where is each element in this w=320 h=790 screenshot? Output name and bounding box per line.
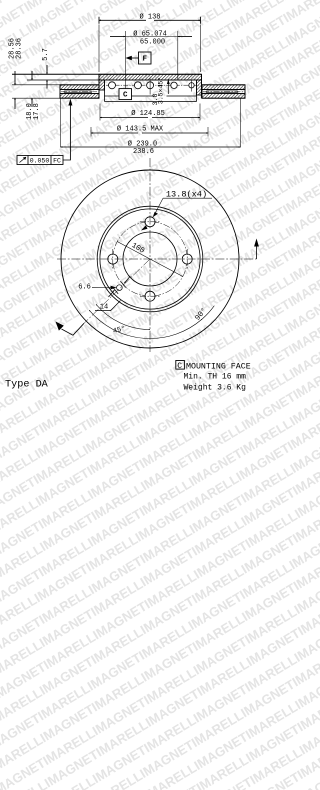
svg-text:Min. TH 16 mm: Min. TH 16 mm (184, 373, 247, 382)
bolt hole N (145, 217, 155, 227)
dimension Ø138 line (99, 17, 201, 24)
bolt hole S cross tick (140, 295, 160, 297)
svg-text:Ø 143.5 MAX: Ø 143.5 MAX (117, 125, 164, 134)
svg-text:13.8(x4): 13.8(x4) (166, 190, 207, 200)
tolerance frame leader (63, 105, 70, 161)
svg-text:MOUNTING FACE: MOUNTING FACE (186, 362, 251, 371)
rotation arrow SW (56, 322, 85, 336)
right rim bottom plate (hatched) (202, 94, 245, 99)
hat inner circle (100, 209, 200, 309)
pin hole axis line (191, 81, 193, 92)
datum C box (119, 89, 132, 100)
extension line hat left x=99 (98, 25, 100, 73)
svg-text:90°: 90° (193, 306, 209, 322)
svg-text:Weight 3.6 Kg: Weight 3.6 Kg (184, 383, 247, 392)
svg-text:C: C (123, 92, 128, 100)
left rim bottom plate (hatched) (60, 94, 99, 99)
dimension 5.7 arrows (46, 65, 48, 89)
extension line bore left x=125.4 (124, 31, 126, 89)
hat right wall section (197, 80, 202, 95)
bolt circle (dash-dot) (113, 222, 187, 296)
hat interior face line y96 (105, 95, 197, 97)
svg-text:0.050: 0.050 (30, 158, 50, 165)
svg-text:Ø 65.074: Ø 65.074 (133, 29, 167, 38)
hat inner wall left (104, 80, 106, 102)
runout tolerance frame (17, 156, 63, 165)
bolt hole E (182, 254, 192, 264)
bolt hole N cross tick (140, 221, 160, 223)
bolt hole section circle 1 (109, 82, 116, 89)
hat interior bottom line (105, 101, 197, 103)
chamfer leader arrow (167, 79, 170, 84)
svg-text:238.6: 238.6 (133, 148, 154, 156)
left rim top plate (hatched) (60, 85, 99, 90)
hat outer wall right (201, 74, 203, 98)
label C MOUNTING FACE (177, 362, 250, 371)
left vent centerline (61, 91, 97, 93)
13.8(x4) leader (153, 198, 212, 217)
bore edge line right (167, 79, 169, 94)
6.6 leader (92, 286, 117, 290)
bolt holes row centerline (106, 84, 199, 86)
datum F box (139, 52, 152, 64)
14 dimension ticks (95, 276, 130, 311)
dimension Ø65.074/65.000 (110, 36, 192, 38)
left rim outline (60, 85, 99, 98)
hat top face line (12, 73, 202, 75)
svg-text:17.8: 17.8 (33, 103, 41, 120)
center hole axis line (149, 79, 151, 95)
svg-text:14: 14 (100, 303, 108, 311)
svg-text:6.6: 6.6 (78, 284, 91, 292)
tangential arrow at bolt circle near N hole (141, 225, 148, 230)
right vent centerline (203, 91, 243, 93)
right rim outline (202, 85, 245, 98)
45 deg arc (96, 304, 150, 329)
svg-text:Ø 124.85: Ø 124.85 (131, 109, 165, 118)
hat left wall section (99, 80, 105, 90)
mounting face line (27, 79, 202, 81)
svg-text:F: F (142, 56, 147, 64)
outer circle Ø239 (61, 170, 239, 348)
svg-text:3.5×45°: 3.5×45° (156, 77, 164, 104)
dimension Ø143.5 MAX (91, 127, 208, 137)
right rim top plate (hatched) (202, 85, 245, 90)
left rim vent lines (60, 89, 99, 91)
hat outer wall left (98, 74, 100, 98)
bolt hole section circle 4 (171, 82, 177, 88)
rim top face extension to left (12, 84, 60, 86)
rim bottom face extension to left (12, 97, 60, 99)
dimension Ø124.85 (100, 104, 200, 121)
bolt hole W (108, 254, 118, 264)
horizontal centerline (57, 258, 257, 260)
svg-text:C: C (177, 362, 182, 371)
right vent rib outline (206, 91, 238, 93)
up arrow at right centerline end (254, 239, 259, 260)
datum F leader arrow (125, 56, 138, 61)
bolt hole section circle 5 (189, 83, 194, 88)
svg-text:FC: FC (53, 158, 61, 165)
svg-text:Ø 138: Ø 138 (139, 12, 160, 21)
dimension 18.0/17.8 arrows (31, 71, 33, 107)
Ø100 dimension line (117, 242, 183, 277)
90 deg arc (89, 310, 202, 338)
hat inner wall right (196, 80, 198, 102)
bolt hole section circle 2 (134, 82, 141, 89)
center bore circle (123, 232, 177, 286)
extension line bore right x=183 (177, 31, 179, 80)
svg-text:28.36: 28.36 (15, 38, 23, 59)
hat flange section (hatched) (99, 74, 202, 80)
right rim vent lines (202, 89, 245, 91)
svg-text:5.7: 5.7 (42, 48, 50, 61)
SW diagonal centerline (84, 259, 150, 323)
extension line hat right x=200.5 (200, 25, 202, 73)
hat outer circle (97, 206, 203, 312)
dimension 28.56/28.36 arrows (14, 71, 16, 109)
svg-text:100: 100 (130, 242, 146, 256)
bolt hole S (145, 291, 155, 301)
bolt hole section circle 3 (center) (147, 82, 154, 89)
vertical centerline (149, 158, 151, 352)
pin hole 6.6 (117, 285, 123, 291)
svg-text:65.000: 65.000 (140, 38, 165, 46)
C mounting face box (176, 361, 185, 370)
dimension Ø239.0/238.6 (61, 98, 241, 147)
bolt hole W cross tick (112, 249, 114, 269)
left vent rib outline (64, 91, 92, 93)
svg-text:Type DA: Type DA (5, 380, 49, 391)
bolt hole E cross tick (186, 249, 188, 269)
